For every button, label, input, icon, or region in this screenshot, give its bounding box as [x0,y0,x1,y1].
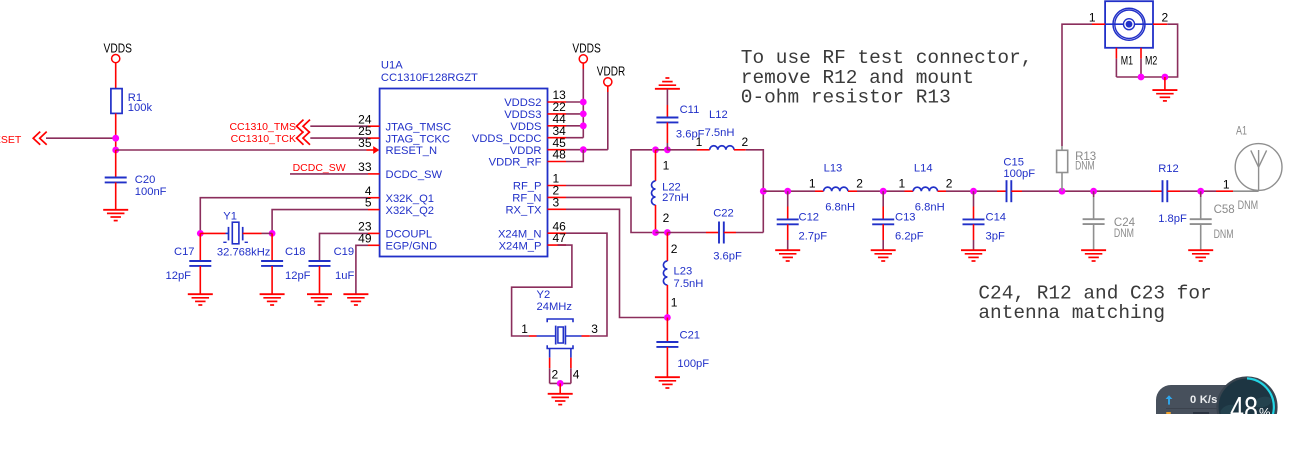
junction top row C11 [664,146,671,153]
ground under C20 [103,210,128,221]
overlay widget: speed text 0K/s [1190,394,1217,406]
capacitor C24 DNM [1083,191,1136,250]
ground under C21 [655,377,680,388]
svg-text:DNM: DNM [1114,228,1134,240]
pin R1 bottom [115,113,117,131]
svg-text:1: 1 [663,158,670,172]
svg-text:R12: R12 [1158,163,1179,175]
svg-text:3: 3 [591,322,598,336]
power symbol VDDS (top left) [104,41,132,63]
svg-text:CC1310_TCK: CC1310_TCK [231,133,296,145]
svg-text:100pF: 100pF [677,358,709,370]
svg-text:3.6pF: 3.6pF [713,251,742,263]
pin 33 DCDC_SW [358,160,442,181]
junction M2 ground [1138,74,1145,81]
pin 5 X32K_Q2 [365,196,434,217]
svg-text:2: 2 [856,176,863,190]
svg-text:C15: C15 [1003,157,1024,169]
svg-text:24MHz: 24MHz [537,301,573,313]
svg-text:antenna matching: antenna matching [978,302,1165,324]
wire SMA pin1 to R13 [1062,24,1092,146]
wire pin 5 X32K_Q2 to Y1 [272,210,368,234]
junction VDDS pin44 [580,122,587,129]
junction C12 [784,188,791,195]
capacitor C18 [261,246,311,282]
svg-text:1uF: 1uF [335,270,354,282]
ground under C18 [260,294,285,305]
inductor L12 [696,109,749,150]
svg-text:6.8nH: 6.8nH [915,201,945,213]
svg-text:DNM: DNM [1238,200,1259,212]
svg-text:DCDC_SW: DCDC_SW [293,162,346,174]
junction Y2 case [557,380,564,387]
pin 2 SMA [1153,10,1169,24]
svg-text:L13: L13 [824,163,843,175]
pin 45 VDDR [510,136,566,157]
wire SET to node [46,137,116,139]
inductor L14 [899,163,953,214]
junction VDDS pin22 [580,111,587,118]
svg-text:X32K_Q2: X32K_Q2 [386,205,435,217]
pin 1 SMA [1089,10,1105,24]
svg-text:2: 2 [671,242,678,256]
junction VDDS pin13 [580,99,587,106]
note: RF test connector usage [741,47,1033,109]
svg-text:EGP/GND: EGP/GND [386,241,438,253]
junction C14 [970,188,977,195]
junction L23/C21 [664,314,671,321]
ground under C19 [307,294,332,305]
pin M1 SMA [1116,48,1133,68]
wire inverted ground to C11 [666,89,668,118]
junction node RESET [112,147,119,154]
svg-text:C19: C19 [334,246,355,258]
wire Y2 case pins to ground [550,368,571,383]
svg-text:DCDC_SW: DCDC_SW [386,169,443,181]
pin 13 VDDS2 [504,88,566,109]
svg-text:CC1310_TMS: CC1310_TMS [229,121,296,133]
wire rail segment 3 [946,190,997,192]
pin 23 DCOUPL [358,220,432,241]
svg-text:VDDR_RF: VDDR_RF [489,157,542,169]
overlay widget: network speed pill [1156,385,1256,431]
capacitor C15 [997,157,1035,203]
svg-text:M2: M2 [1145,53,1158,67]
svg-text:X32K_Q1: X32K_Q1 [386,193,435,205]
svg-text:33: 33 [358,160,372,174]
svg-text:1: 1 [671,296,678,310]
wire Y1 to C17 [199,233,201,261]
wire pin 46 X24M_N to Y2 pin 3 [565,233,607,336]
svg-text:2: 2 [742,135,749,149]
shunt capacitor C12 [777,191,828,250]
pin 1 RF_P [513,172,566,193]
svg-text:6.8nH: 6.8nH [825,201,855,213]
wire Y1 to C18 [271,233,273,261]
wire pin 22 to VDDS [566,113,583,115]
svg-text:VDDS3: VDDS3 [504,109,541,121]
svg-text:5: 5 [365,196,372,210]
ground EGP/GND [343,294,368,305]
svg-text:C18: C18 [285,246,306,258]
svg-text:1: 1 [809,176,816,190]
wire pin 49 EGP/GND to ground [356,245,368,294]
svg-text:DNM: DNM [1075,161,1095,173]
junction top row L22 [652,146,659,153]
svg-text:RESET_N: RESET_N [386,145,438,157]
shunt capacitor C13 [872,191,924,250]
pin 35 RESET_N [358,136,437,157]
ground under Y2 [548,394,573,405]
svg-text:2: 2 [663,211,670,225]
connector J RF test (SMA) [1105,1,1153,48]
svg-text:C24, R12 and C23 for: C24, R12 and C23 for [978,282,1211,304]
overlay widget: battery circle 48% [1216,376,1279,460]
ground above C11 (inverted) [655,78,680,89]
svg-text:48: 48 [553,148,567,162]
pin M2 SMA [1141,48,1158,68]
wire L12 to rail riser [746,150,764,233]
svg-text:Y1: Y1 [223,210,237,222]
shunt capacitor C14 [963,191,1007,250]
svg-text:3: 3 [553,195,560,209]
wire to SMA ground [1164,77,1166,90]
wire bottom row L22-L23 [656,232,668,234]
white mask bottom [0,414,1310,460]
resistor R1 [111,89,153,114]
svg-text:X24M_P: X24M_P [499,240,542,252]
svg-text:L14: L14 [914,163,933,175]
pin 3 RX_TX [505,195,566,216]
pin 34 VDDS_DCDC [472,124,566,145]
note: antenna matching [978,282,1211,324]
junction VDDR [580,146,587,153]
svg-text:100k: 100k [128,102,153,114]
svg-text:35: 35 [358,136,372,150]
junction bottom row L22 [652,229,659,236]
pin 44 VDDS [510,112,566,133]
svg-text:49: 49 [358,231,372,245]
wire rail segment 5 [1167,190,1216,192]
svg-text:1: 1 [521,322,528,336]
pin 24 JTAG_TMSC [358,112,451,133]
ground SMA [1152,90,1177,101]
svg-text:12pF: 12pF [285,270,311,282]
svg-text:0-ohm resistor R13: 0-ohm resistor R13 [741,87,951,109]
junction SMA ground [1162,74,1169,81]
capacitor C17 [166,246,212,282]
junction R13 [1059,188,1066,195]
svg-text:L23: L23 [674,266,693,278]
wire RX_TX to L23/C21 [566,209,667,317]
wire pin 48 riser [566,150,583,162]
pin 47 X24M_P [499,231,567,252]
svg-text:VDDS2: VDDS2 [504,97,541,109]
svg-text:JTAG_TMSC: JTAG_TMSC [386,121,452,133]
svg-text:JTAG_TCKC: JTAG_TCKC [386,133,450,145]
svg-text:1: 1 [899,176,906,190]
wire CC1310_TCK to pin 25 [310,137,368,139]
wire pin 4 X32K_Q1 to Y1 [200,198,368,234]
pin arrow RESET_N [373,146,379,154]
svg-text:1.8pF: 1.8pF [1158,213,1187,225]
wire VDDS to R1 [115,63,117,89]
inductor L13 [809,163,863,214]
pin 25 JTAG_TCKC [358,124,450,145]
ground under C58 [1188,250,1213,261]
ground under C14 [961,250,986,261]
pin 22 VDDS3 [504,100,566,121]
junction bottom row L23 [664,229,671,236]
wire CC1310_TMS to pin 24 [310,125,368,127]
wire node to C20 [115,150,117,178]
capacitor C58 DNM [1190,191,1235,250]
pin 4 X32K_Q1 [365,184,434,205]
crystal Y2 [521,289,598,382]
wire C19 to ground [319,266,321,294]
net label CC1310_TCK [231,132,310,146]
wire pin 45 to VDDR [566,149,608,151]
overlay widget: second row sliver [1166,412,1171,414]
wire C18 to ground [271,266,273,294]
power symbol VDDR [597,63,625,86]
wire RF_P to top row [566,150,652,186]
wire C20 to ground [115,182,117,209]
pin L12 right [734,149,746,151]
svg-text:C17: C17 [174,246,195,258]
ground under C17 [188,294,213,305]
svg-text:7.5nH: 7.5nH [705,127,735,139]
capacitor C21 [656,330,709,371]
wire bottom row to C22 [667,232,719,234]
wire SMA pin2 to ground net [1165,24,1178,77]
junction C13 [880,188,887,195]
svg-text:Y2: Y2 [537,289,551,301]
IC U1A CC1310F128RGZT [380,60,548,257]
ground under C13 [871,250,896,261]
wire C22 to riser [724,232,764,234]
wire to Y2 ground [559,383,561,393]
pin 2 RF_N [512,184,566,205]
wire R1 to junctions [115,131,117,150]
wire RF_N to bottom row [566,197,652,232]
wire M1 M2 to ground net [1116,59,1165,77]
svg-text:RF_P: RF_P [513,181,542,193]
net label CC1310_TMS [229,120,310,134]
svg-text:7.5nH: 7.5nH [674,278,704,290]
wire VDDR down [607,86,609,150]
svg-text:2: 2 [1162,10,1169,24]
wire rail to antenna [1216,178,1259,192]
svg-text:4: 4 [573,368,580,382]
wire rail segment 4 [1011,190,1151,192]
wire pin 23 DCOUPL to C19 [320,233,369,261]
svg-text:VDDR: VDDR [510,145,542,157]
svg-text:To use RF test connector,: To use RF test connector, [741,47,1033,69]
wire to C21 [666,318,668,343]
wire rail riser junction [760,188,767,195]
resistor R13 DNM [1057,146,1097,191]
capacitor C20 [105,174,167,198]
svg-text:100nF: 100nF [135,186,167,198]
inductor L23 [663,233,703,318]
wire C21 to ground [666,347,668,377]
svg-text:32.768kHz: 32.768kHz [217,247,271,259]
svg-text:U1A: U1A [381,60,403,72]
svg-text:VDDS: VDDS [572,41,600,56]
svg-text:VDDS: VDDS [104,41,132,56]
svg-text:A1: A1 [1236,125,1247,137]
crystal Y1 [200,210,272,258]
svg-text:1: 1 [1223,178,1230,192]
pin 46 X24M_N [498,219,566,240]
svg-text:C13: C13 [895,212,916,224]
wire pin 13 to VDDS [566,101,583,103]
power symbol VDDS (above U1A) [572,41,600,64]
svg-text:C11: C11 [680,104,700,116]
capacitor C22 [713,208,742,263]
ground under C24 [1081,250,1106,261]
wire top row to L12 [667,149,709,151]
wire DCDC_SW to pin 33 [290,173,368,175]
ground under C12 [775,250,800,261]
wire rail segment 1 [763,190,815,192]
capacitor C19 [309,246,355,282]
svg-text:C22: C22 [713,208,734,220]
pin 48 VDDR_RF [489,148,567,169]
svg-text:DCOUPL: DCOUPL [386,229,433,241]
wire pin 47 X24M_P to Y2 pin 1 [512,245,572,336]
svg-text:1: 1 [1089,10,1096,24]
svg-text:RX_TX: RX_TX [505,205,542,217]
svg-text:L12: L12 [709,109,728,121]
svg-text:C14: C14 [986,212,1007,224]
svg-text:C21: C21 [680,330,701,342]
wire C17 to ground [199,266,201,294]
svg-text:X24M_N: X24M_N [498,228,542,240]
svg-text:C20: C20 [135,174,156,186]
svg-text:C58: C58 [1214,204,1235,216]
overlay widget: upload arrow [1165,395,1173,405]
svg-text:27nH: 27nH [662,192,689,204]
svg-text:VDDS: VDDS [510,121,541,133]
svg-text:100pF: 100pF [1003,168,1035,180]
pin C11 bottom [666,122,668,149]
junction Y1 right [269,230,276,237]
svg-text:12pF: 12pF [166,270,192,282]
svg-text:2: 2 [552,368,559,382]
antenna A1 DNM [1235,125,1282,212]
svg-text:3pF: 3pF [986,231,1005,243]
junction node SET/R1 [112,135,119,142]
pin 49 EGP/GND [358,231,437,252]
svg-text:DNM: DNM [1214,229,1234,241]
wire pin 44 to VDDS [566,125,583,127]
inductor L22 [652,150,689,233]
svg-text:RF_N: RF_N [512,193,541,205]
svg-text:M1: M1 [1121,53,1134,67]
svg-text:remove R12 and mount: remove R12 and mount [741,67,974,89]
junction C24 [1090,188,1097,195]
capacitor R12 (1.8pF) [1151,163,1187,225]
wire top row L22-C11 [656,149,668,151]
net label SET [0,132,47,147]
svg-text:CC1310F128RGZT: CC1310F128RGZT [381,72,478,84]
svg-text:VDDS_DCDC: VDDS_DCDC [472,133,542,145]
svg-text:3.6pF: 3.6pF [676,129,705,141]
svg-text:ESET: ESET [0,134,22,146]
wire RESET_N to U1A pin 35 [116,149,374,151]
wire VDDS rail [582,63,584,138]
net label DCDC_SW [293,162,346,174]
wire rail segment 2 [857,190,905,192]
svg-text:C12: C12 [799,212,820,224]
junction C58 [1197,188,1204,195]
svg-text:6.2pF: 6.2pF [895,231,924,243]
svg-text:2.7pF: 2.7pF [799,231,828,243]
svg-text:47: 47 [553,231,567,245]
svg-text:VDDR: VDDR [597,63,625,78]
svg-text:2: 2 [946,176,953,190]
junction Y1 left [197,230,204,237]
capacitor C11 [656,104,704,141]
wire pin 34 to VDDS [566,137,583,139]
